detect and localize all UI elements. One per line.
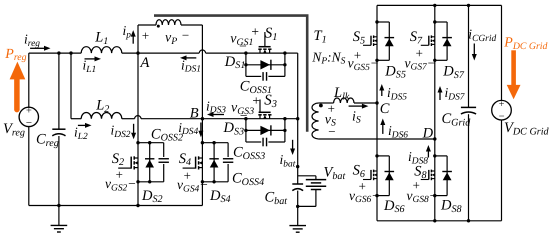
svg-text:NP:NS: NP:NS [311,49,345,66]
svg-text:D: D [422,126,434,142]
svg-text:B: B [190,106,199,122]
svg-text:A: A [140,55,150,71]
svg-text:+: + [251,24,260,39]
svg-text:+: + [183,168,192,183]
svg-text:+: + [358,179,367,194]
svg-text:+: + [412,178,421,193]
svg-text:+: + [141,28,150,43]
svg-text:−: − [181,28,190,43]
svg-text:C: C [380,101,390,117]
svg-text:+: + [115,167,124,182]
svg-text:+: + [353,47,362,62]
svg-text:−: − [239,108,248,123]
svg-text:+: + [252,93,261,108]
svg-text:+: + [415,46,424,61]
svg-text:−: − [327,124,336,139]
svg-text:−: − [238,39,247,54]
svg-text:+: + [498,99,505,110]
